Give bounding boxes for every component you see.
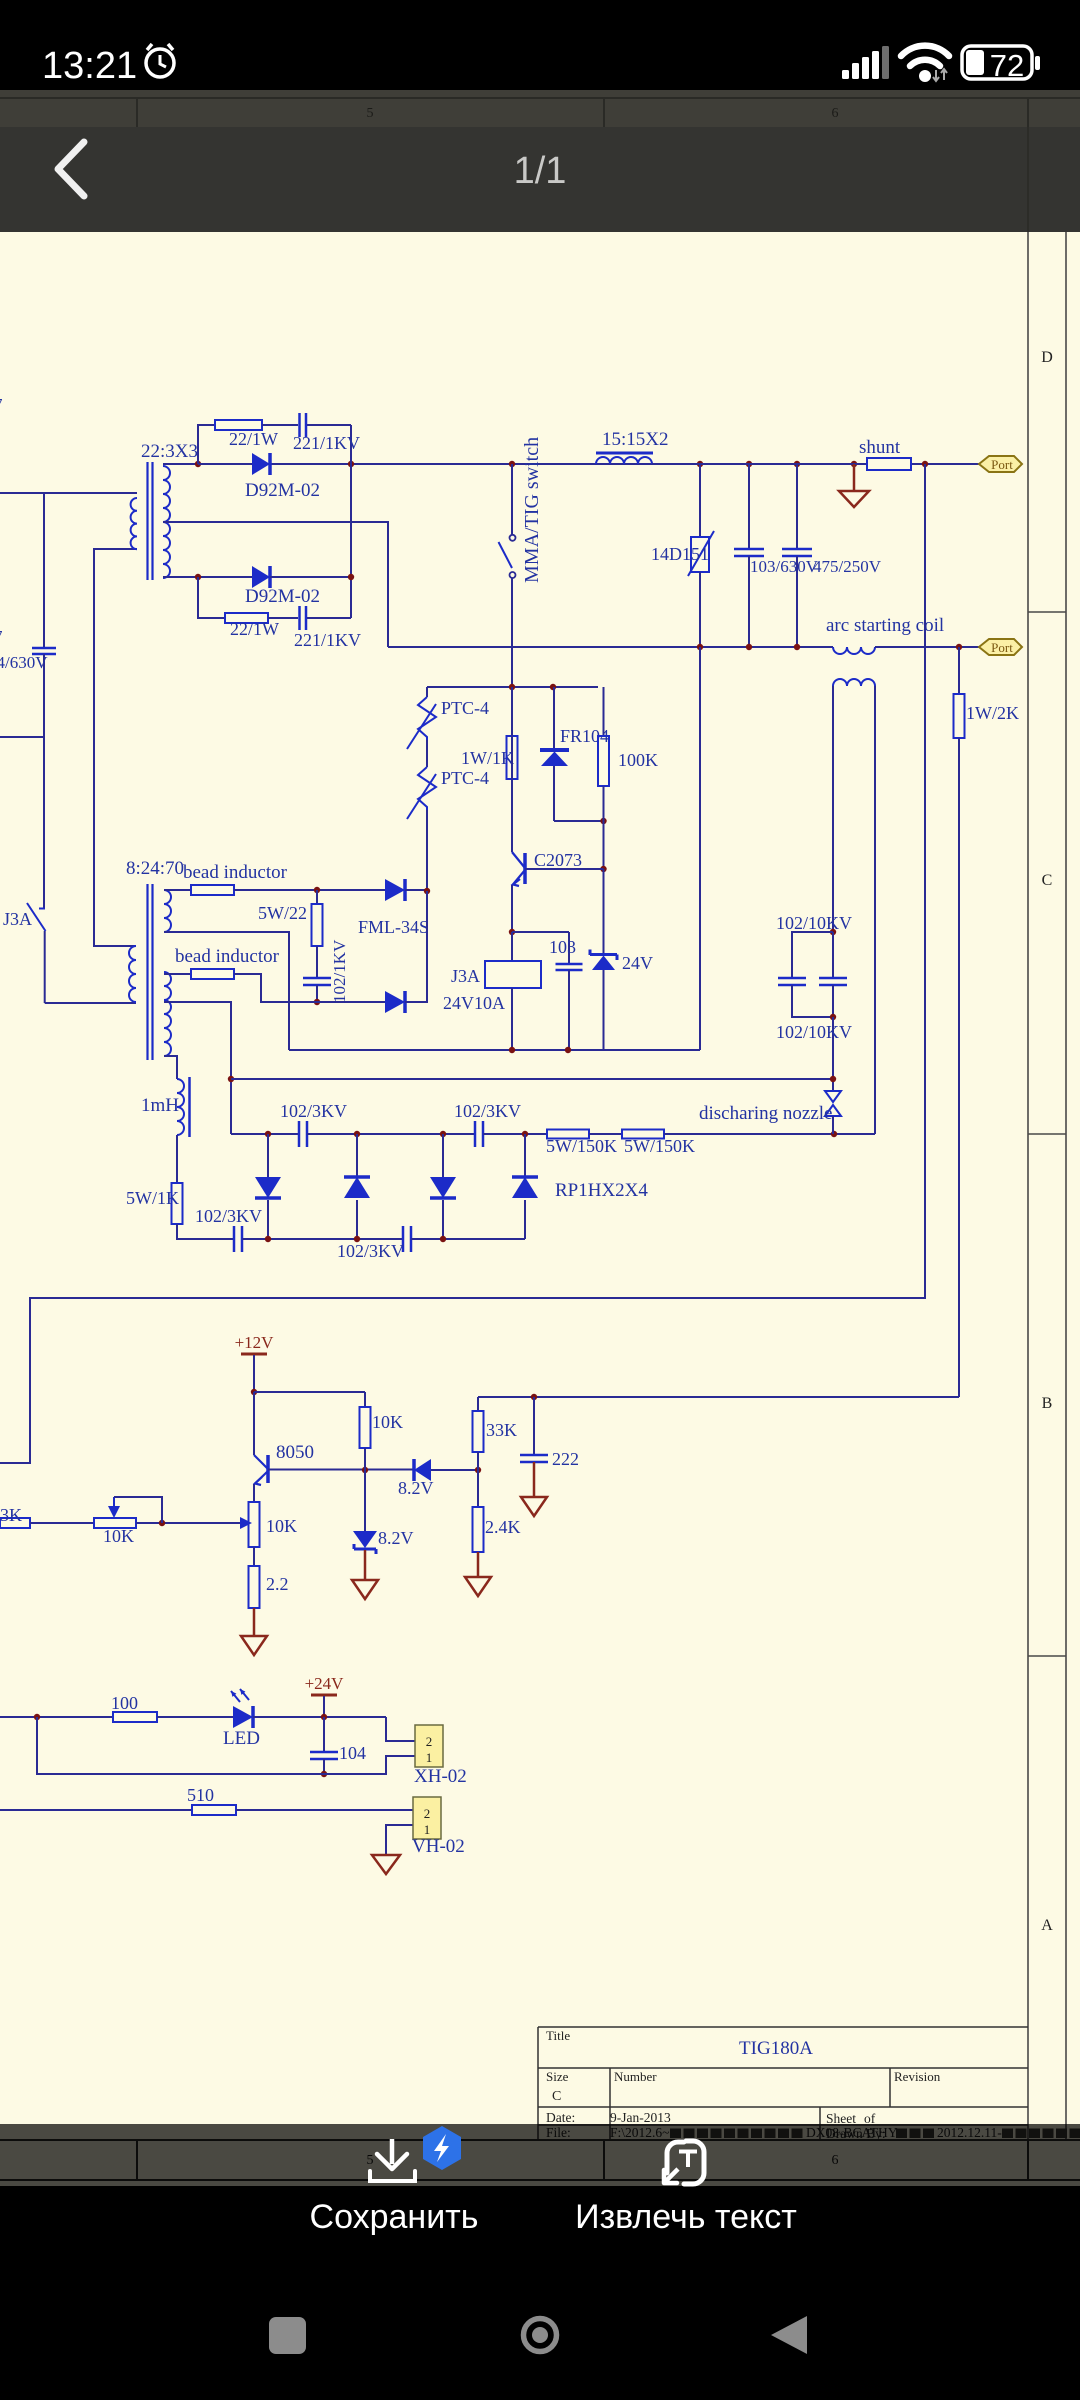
svg-text:LED: LED	[223, 1728, 260, 1749]
svg-text:22/1W: 22/1W	[229, 429, 278, 449]
svg-text:arc starting coil: arc starting coil	[826, 615, 944, 636]
svg-text:Number: Number	[614, 2069, 657, 2084]
svg-text:2.4K: 2.4K	[485, 1517, 521, 1537]
svg-text:5W/150K: 5W/150K	[546, 1136, 617, 1156]
svg-text:B: B	[1042, 1395, 1053, 1412]
svg-text:1mH: 1mH	[141, 1095, 179, 1116]
svg-text:10K: 10K	[266, 1516, 297, 1536]
svg-text:1W/2K: 1W/2K	[966, 703, 1019, 723]
svg-text:102/3KV: 102/3KV	[337, 1241, 404, 1261]
svg-text:6: 6	[832, 106, 839, 121]
svg-text:22/1W: 22/1W	[230, 619, 279, 639]
svg-text:8.2V: 8.2V	[378, 1528, 414, 1548]
svg-text:24V10A: 24V10A	[443, 993, 505, 1013]
svg-text:221/1KV: 221/1KV	[294, 630, 361, 650]
svg-text:Извлечь текст: Извлечь текст	[575, 2198, 797, 2236]
svg-text:100: 100	[111, 1693, 138, 1713]
svg-text:VH-02: VH-02	[412, 1836, 465, 1857]
svg-text:8050: 8050	[276, 1442, 314, 1463]
svg-text:1: 1	[424, 1822, 431, 1837]
svg-text:1/1: 1/1	[514, 150, 567, 192]
svg-text:Date:: Date:	[546, 2110, 575, 2125]
svg-text:103: 103	[549, 937, 576, 957]
svg-text:102/3KV: 102/3KV	[454, 1101, 521, 1121]
svg-text:2: 2	[426, 1734, 433, 1749]
svg-text:Title: Title	[546, 2028, 570, 2043]
svg-text:XH-02: XH-02	[414, 1766, 467, 1787]
svg-text:+12V: +12V	[235, 1333, 275, 1352]
svg-text:510: 510	[187, 1785, 214, 1805]
svg-text:D92M-02: D92M-02	[245, 480, 320, 501]
svg-text:Size: Size	[546, 2069, 569, 2084]
svg-text:8:24:70: 8:24:70	[126, 858, 184, 879]
svg-text:J3A: J3A	[3, 909, 32, 929]
svg-text:MMA/TIG switch: MMA/TIG switch	[521, 437, 543, 583]
svg-text:Port: Port	[991, 640, 1013, 655]
svg-text:102/3KV: 102/3KV	[280, 1101, 347, 1121]
svg-text:D92M-02: D92M-02	[245, 586, 320, 607]
svg-text:A: A	[1041, 1917, 1053, 1934]
svg-text:102/3KV: 102/3KV	[195, 1206, 262, 1226]
svg-text:100K: 100K	[618, 750, 658, 770]
svg-text:Revision: Revision	[894, 2069, 941, 2084]
svg-text:72: 72	[990, 48, 1024, 83]
svg-text:10K: 10K	[103, 1526, 134, 1546]
svg-text:9-Jan-2013: 9-Jan-2013	[610, 2110, 671, 2125]
svg-text:102/1KV: 102/1KV	[330, 939, 349, 1003]
svg-text:102/10KV: 102/10KV	[776, 913, 852, 933]
svg-text:of: of	[864, 2111, 876, 2126]
svg-text:TIG180A: TIG180A	[739, 2038, 813, 2059]
svg-text:Port: Port	[991, 457, 1013, 472]
svg-text:2: 2	[424, 1806, 431, 1821]
svg-text:15:15X2: 15:15X2	[602, 429, 669, 450]
svg-text:Sheet: Sheet	[826, 2111, 856, 2126]
svg-text:shunt: shunt	[859, 437, 901, 458]
svg-text:discharing nozzle: discharing nozzle	[699, 1103, 832, 1124]
svg-text:bead inductor: bead inductor	[175, 946, 280, 967]
svg-text:1: 1	[426, 1750, 433, 1765]
svg-text:+24V: +24V	[305, 1674, 345, 1693]
svg-text:C: C	[552, 2089, 561, 2104]
svg-text:D: D	[1041, 349, 1053, 366]
svg-text:24V: 24V	[622, 953, 653, 973]
svg-text:bead inductor: bead inductor	[183, 862, 288, 883]
svg-text:475/250V: 475/250V	[813, 557, 882, 576]
svg-text:J3A: J3A	[451, 966, 480, 986]
svg-text:C2073: C2073	[534, 850, 582, 870]
svg-text:PTC-4: PTC-4	[441, 698, 489, 718]
svg-text:5W/22: 5W/22	[258, 903, 307, 923]
svg-text:222: 222	[552, 1449, 579, 1469]
svg-text:14D151: 14D151	[651, 544, 709, 564]
svg-text:103/630V: 103/630V	[750, 557, 819, 576]
svg-text:13:21: 13:21	[42, 45, 137, 87]
svg-text:Сохранить: Сохранить	[310, 2198, 479, 2236]
svg-text:FML-34S: FML-34S	[358, 917, 429, 937]
svg-text:C: C	[1042, 872, 1053, 889]
svg-text:5W/150K: 5W/150K	[624, 1136, 695, 1156]
svg-text:2.2: 2.2	[266, 1574, 289, 1594]
svg-text:5W/1K: 5W/1K	[126, 1188, 179, 1208]
svg-text:22:3X3: 22:3X3	[141, 441, 198, 462]
svg-text:10K: 10K	[372, 1412, 403, 1432]
svg-text:04/630V: 04/630V	[0, 653, 48, 672]
svg-text:PTC-4: PTC-4	[441, 768, 489, 788]
svg-text:104: 104	[339, 1743, 366, 1763]
svg-text:RP1HX2X4: RP1HX2X4	[555, 1180, 648, 1201]
svg-text:3K: 3K	[0, 1505, 22, 1525]
svg-text:5: 5	[367, 106, 374, 121]
svg-text:8.2V: 8.2V	[398, 1478, 434, 1498]
svg-text:102/10KV: 102/10KV	[776, 1022, 852, 1042]
svg-text:221/1KV: 221/1KV	[293, 433, 360, 453]
svg-text:33K: 33K	[486, 1420, 517, 1440]
